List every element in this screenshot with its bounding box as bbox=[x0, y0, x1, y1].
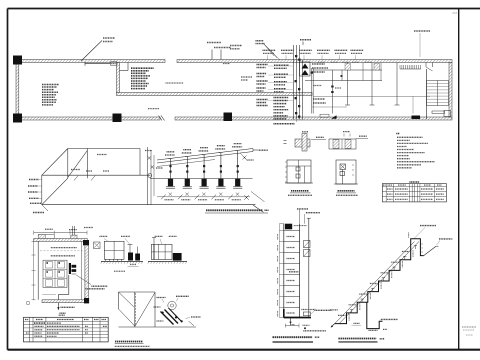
far-left plan label bbox=[230, 45, 242, 47]
room left wall bbox=[37, 241, 39, 299]
dark wedge on bottom wall bbox=[331, 115, 337, 119]
box with X outside right wall bbox=[94, 242, 101, 249]
detail A leader bbox=[311, 139, 326, 141]
equipment table bbox=[382, 184, 446, 202]
stair caption bbox=[338, 338, 376, 340]
dim under pumps bbox=[130, 264, 136, 266]
box detail frame bbox=[119, 291, 156, 293]
triangle 1 bbox=[302, 64, 309, 69]
inlet manifold cluster bbox=[147, 147, 149, 205]
plan left wall bbox=[16, 63, 19, 118]
valve box with triangles bbox=[300, 62, 311, 76]
riser top labels bbox=[297, 208, 308, 210]
down arrow bbox=[290, 318, 292, 323]
ladder rails bbox=[283, 224, 285, 318]
tank front face bbox=[42, 174, 150, 176]
caption above table bbox=[59, 314, 65, 316]
stair bottom U bbox=[367, 302, 383, 328]
high label right wing bbox=[414, 30, 430, 32]
left dim ticks bbox=[279, 223, 283, 225]
pump unit 1 bbox=[170, 159, 172, 179]
per-step fittings bbox=[351, 310, 353, 313]
box detail captions bbox=[115, 341, 143, 343]
chase fittings bbox=[295, 55, 297, 57]
detail A elevation bbox=[287, 160, 311, 183]
left dim line bbox=[33, 241, 35, 299]
label below corner bbox=[33, 212, 44, 214]
label below bottom wall at chase bbox=[274, 123, 295, 125]
header lower line bbox=[157, 160, 215, 167]
materials table bbox=[24, 317, 109, 342]
ground right iso edges bbox=[253, 205, 264, 213]
border frame bbox=[8, 8, 480, 10]
tank inner labels bbox=[97, 154, 107, 156]
door notch top wall bbox=[425, 63, 427, 68]
hydrant label + leader fan bbox=[256, 40, 264, 42]
junction dots bbox=[162, 312, 164, 314]
interior horizontal wall bbox=[117, 93, 313, 96]
label band above wall bbox=[263, 49, 276, 51]
ladder rungs bbox=[284, 229, 300, 231]
labels above wall seg2 bbox=[207, 42, 221, 44]
room black column bbox=[84, 298, 89, 303]
tank elevation 1 bbox=[104, 241, 124, 259]
triangle 2 bbox=[302, 70, 309, 75]
room top dim line bbox=[34, 232, 87, 234]
stair top exit diagonal bbox=[424, 246, 436, 255]
bay labels bbox=[287, 236, 296, 238]
notes block bbox=[396, 133, 400, 135]
label to sewer bbox=[314, 309, 331, 311]
detail A caption bbox=[291, 190, 309, 192]
section caption 1-1 bbox=[60, 312, 66, 314]
stair bbox=[427, 81, 449, 106]
platform back edge bbox=[150, 178, 253, 180]
equipment boxes top bbox=[362, 63, 364, 81]
axon caption bbox=[206, 209, 263, 211]
foundation grid bbox=[43, 260, 67, 287]
thin line above bottom wall bbox=[42, 294, 56, 296]
dark pump cluster bbox=[69, 263, 71, 274]
ladder thick bottom bbox=[284, 317, 311, 319]
break mark bottom wall gap bbox=[159, 116, 163, 121]
door chevrons bbox=[304, 241, 311, 248]
left external labels bbox=[29, 179, 39, 181]
detail A plan bbox=[295, 139, 310, 147]
room right wall bbox=[85, 241, 89, 300]
left label stack upper bbox=[257, 64, 268, 66]
header sloped lines bbox=[157, 149, 253, 161]
room top wall bbox=[34, 239, 87, 242]
stair top labels bbox=[420, 225, 436, 227]
landing rect below stair bbox=[432, 111, 445, 114]
column bottom mid2 bbox=[224, 113, 233, 122]
room bottom wall bbox=[42, 300, 85, 303]
left label stack lower bbox=[257, 99, 268, 101]
small labels below top wall bbox=[318, 61, 325, 63]
column bottom-left bbox=[13, 114, 22, 123]
box detail labels bbox=[157, 297, 166, 299]
inner face of right wall bbox=[81, 241, 83, 299]
small box right end bottom wall bbox=[444, 111, 451, 117]
riser caption bbox=[273, 336, 313, 338]
bottom right fitting bbox=[303, 312, 310, 316]
tank1 leaders bbox=[100, 235, 108, 237]
plan right wall bbox=[449, 63, 452, 118]
circle joint bbox=[168, 301, 176, 309]
title block divider bbox=[458, 9, 460, 350]
detail B leader bbox=[356, 138, 368, 140]
X mark near right end bbox=[244, 195, 249, 200]
interior vertical wall bbox=[117, 63, 120, 93]
dark diagonal pipes bbox=[161, 312, 174, 325]
second riser pipe bbox=[308, 218, 310, 317]
tank verticals bbox=[67, 149, 69, 179]
column grid verticals bbox=[347, 63, 349, 106]
stair diagonals bbox=[335, 242, 415, 324]
sump label bbox=[241, 76, 252, 78]
black column top-right bbox=[83, 240, 89, 245]
tank iso diagonals bbox=[42, 149, 68, 176]
in-room text rows bbox=[51, 247, 77, 249]
right labels of chase bbox=[312, 63, 325, 65]
circled mark bbox=[26, 301, 30, 305]
detail B plan bbox=[329, 139, 356, 149]
detail B caption bbox=[338, 190, 355, 192]
pipe chase verticals bbox=[293, 45, 295, 120]
plan top wall segment 1 bbox=[16, 60, 166, 63]
title block text bbox=[453, 12, 458, 14]
legend text block 1 bbox=[42, 84, 59, 86]
column bottom mid1 bbox=[113, 114, 122, 123]
pump unit 3 bbox=[203, 155, 205, 179]
riser pipes entering room bbox=[71, 226, 73, 240]
fixture tick row bbox=[399, 65, 401, 69]
platform line2 bbox=[157, 196, 250, 198]
door sill bottom wall bbox=[320, 114, 329, 117]
tank elevation 2 bbox=[151, 244, 172, 259]
plan top wall segment 2 bbox=[177, 60, 452, 63]
box detail baseline bbox=[119, 326, 197, 328]
tank panel diagonal bbox=[68, 151, 88, 178]
plan bottom wall segment 2 bbox=[175, 117, 452, 120]
pump unit 5 bbox=[237, 151, 239, 179]
pumps beside tank 1 bbox=[128, 253, 133, 261]
ticks on down leg bbox=[421, 243, 423, 245]
stair bottom labels bbox=[330, 309, 338, 311]
vestibule bbox=[38, 235, 54, 239]
riser connector bbox=[84, 227, 93, 229]
tank top edge bbox=[68, 148, 140, 150]
bottom dim bbox=[285, 325, 299, 327]
slope note 2 bbox=[148, 108, 159, 110]
leader diagonal to label top-left bbox=[81, 41, 102, 62]
riser black box bbox=[285, 224, 292, 230]
outlet pipe bbox=[68, 275, 70, 295]
dark fixture near stair bottom bbox=[412, 116, 421, 120]
detail B elevation bbox=[336, 160, 356, 184]
equipment table title bbox=[410, 181, 420, 183]
stair zigzag bbox=[335, 239, 424, 324]
pump beside tank 2 bbox=[173, 253, 182, 261]
slope note bbox=[166, 82, 184, 84]
interior wall by stair bbox=[426, 69, 428, 119]
leader to detail note bbox=[76, 275, 91, 285]
pump unit 2 bbox=[186, 157, 188, 179]
legend text block 2 bbox=[131, 67, 154, 69]
small corner room top-left of interior wall bbox=[120, 70, 129, 72]
hydrant box on top wall bbox=[71, 235, 77, 240]
start arrow bbox=[332, 324, 335, 327]
column top-left bbox=[13, 56, 22, 65]
header outlet to roof tank bbox=[253, 149, 259, 151]
pipe line with tag left wing bbox=[85, 63, 111, 65]
X valve near header left bbox=[243, 156, 247, 160]
beam dashed line bbox=[40, 250, 84, 252]
partition walls right of chase bbox=[311, 68, 313, 114]
chase top labels bbox=[300, 39, 311, 41]
pump unit 4 bbox=[220, 153, 222, 179]
plan bottom wall segment 1 bbox=[19, 117, 160, 120]
